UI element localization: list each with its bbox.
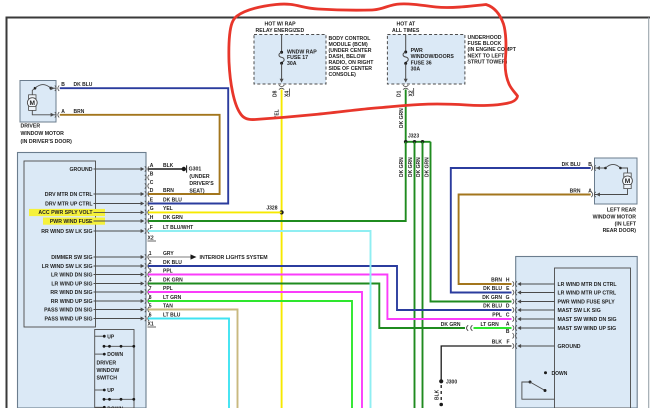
- svg-text:DK BLU: DK BLU: [562, 162, 581, 168]
- pin 4 of driver window switch: [51, 277, 183, 287]
- pin B label + wire DK BLU: LR motor B to LR module pin E: [451, 162, 593, 293]
- svg-text:BLK: BLK: [492, 339, 503, 345]
- svg-text:DK GRN: DK GRN: [424, 157, 430, 177]
- svg-text:UP: UP: [107, 388, 115, 394]
- svg-text:J300: J300: [446, 379, 457, 385]
- pin 2 of driver window switch: [42, 260, 182, 270]
- svg-text:DRIVER'S: DRIVER'S: [189, 181, 214, 187]
- svg-text:H: H: [150, 215, 154, 221]
- svg-text:J328: J328: [266, 206, 277, 212]
- label: HOT W/ RAP RELAY ENERGIZED: [256, 22, 305, 34]
- svg-text:G: G: [506, 295, 510, 301]
- pin H of left rear door module: [491, 277, 617, 287]
- pin F of left rear door module: [492, 339, 581, 349]
- svg-text:MAST SW WIND UP SIG: MAST SW WIND UP SIG: [558, 326, 617, 332]
- svg-text:NEXT TO LEFT: NEXT TO LEFT: [468, 53, 506, 59]
- fuse box: underhood fuse block (dashed): [387, 35, 465, 85]
- svg-text:LR WIND SW LK SIG: LR WIND SW LK SIG: [42, 264, 93, 270]
- svg-text:F: F: [150, 225, 153, 231]
- module: left rear door module (outer box): [516, 257, 638, 409]
- svg-text:2: 2: [149, 260, 152, 266]
- svg-text:DIMMER SW SIG: DIMMER SW SIG: [51, 255, 92, 261]
- svg-text:FUSE BLOCK: FUSE BLOCK: [468, 41, 502, 47]
- svg-text:PPL: PPL: [163, 286, 173, 292]
- svg-text:B: B: [588, 162, 592, 168]
- svg-text:PPL: PPL: [163, 268, 173, 274]
- svg-text:X2: X2: [148, 236, 154, 242]
- svg-text:D: D: [150, 188, 154, 194]
- svg-text:X1: X1: [148, 322, 154, 328]
- pin 5 of driver window switch: [44, 303, 173, 313]
- svg-text:DK BLU: DK BLU: [163, 197, 182, 203]
- svg-text:DRIVER: DRIVER: [97, 360, 117, 366]
- svg-text:SWITCH: SWITCH: [97, 375, 118, 381]
- pin 6 of driver window switch: [45, 312, 181, 322]
- pin G of driver window switch: [38, 206, 172, 216]
- svg-text:D1: D1: [396, 90, 402, 97]
- svg-text:MAST SW WIND DN SIG: MAST SW WIND DN SIG: [558, 317, 617, 323]
- pin C of left rear door module: [492, 312, 616, 322]
- wire BLK dashed below J300: [435, 385, 444, 406]
- svg-text:PWR WIND FUSE: PWR WIND FUSE: [50, 219, 93, 225]
- highlight: PWR WIND FUSE: [43, 218, 105, 225]
- svg-text:B: B: [150, 171, 154, 177]
- svg-text:B: B: [506, 329, 510, 335]
- svg-text:(IN ENGINE COMPT: (IN ENGINE COMPT: [468, 47, 517, 53]
- svg-text:RR WIND SW LK SIG: RR WIND SW LK SIG: [41, 229, 92, 235]
- svg-text:DK GRN: DK GRN: [408, 157, 414, 177]
- svg-text:STRUT TOWER): STRUT TOWER): [468, 60, 508, 66]
- label: DRIVER WINDOW MOTOR (IN DRIVER'S DOOR): [21, 123, 73, 145]
- svg-text:DK GRN: DK GRN: [163, 215, 183, 221]
- pin H of driver window switch: [50, 215, 183, 225]
- svg-text:PASS WIND DN SIG: PASS WIND DN SIG: [44, 307, 92, 313]
- wire DK GRN branch 2: J323 down off page: [408, 142, 415, 408]
- fuse F17 WNDW RAP 30A: [279, 35, 317, 80]
- pin 1 of driver window switch: [51, 251, 174, 261]
- svg-text:UNDERHOOD: UNDERHOOD: [468, 35, 502, 41]
- svg-text:J323: J323: [408, 134, 419, 140]
- wire DK GRN: fuse 36 down to J323: [399, 90, 406, 142]
- svg-text:C: C: [150, 180, 154, 186]
- pin D8 / X4 of BCM connector: [272, 79, 290, 97]
- pin E of left rear door module: [483, 286, 617, 296]
- svg-text:D8: D8: [272, 90, 278, 97]
- svg-text:3: 3: [149, 268, 152, 274]
- svg-text:WINDOW MOTOR: WINDOW MOTOR: [593, 214, 637, 220]
- svg-text:1: 1: [149, 251, 152, 257]
- wire DK GRN branch 1: J323 to driver switch pin H: [148, 142, 406, 221]
- ground G301 (under driver's seat): [182, 165, 215, 194]
- svg-text:CONSOLE): CONSOLE): [329, 72, 357, 78]
- svg-text:HOT AT: HOT AT: [397, 22, 417, 28]
- svg-text:ALL TIMES: ALL TIMES: [392, 28, 420, 34]
- svg-text:FUSE 36: FUSE 36: [411, 60, 432, 66]
- highlight: ACC PWR SPLY VOLT: [29, 209, 105, 216]
- label: HOT AT ALL TIMES: [392, 22, 420, 34]
- wire LT GRN: inline connector to LR module pin A: [474, 322, 512, 328]
- svg-text:DK GRN: DK GRN: [399, 108, 405, 128]
- wire LT BLU/WHT: pin F down off page: [148, 231, 371, 408]
- svg-text:GROUND: GROUND: [558, 344, 581, 350]
- pin C of driver window switch: [145, 180, 154, 189]
- svg-text:8: 8: [149, 295, 152, 301]
- wire YEL row G: pin G to J328: [148, 211, 282, 213]
- svg-text:BLK: BLK: [163, 163, 174, 169]
- pin B label + wire DK BLU: driver motor B to switch pin E: [60, 82, 228, 203]
- svg-text:BLK: BLK: [435, 389, 441, 400]
- svg-text:DK GRN: DK GRN: [163, 277, 183, 283]
- svg-text:INTERIOR LIGHTS SYSTEM: INTERIOR LIGHTS SYSTEM: [200, 255, 268, 261]
- svg-text:A: A: [588, 188, 592, 194]
- pin E of driver window switch: [45, 197, 182, 207]
- wire GRY: pin 1 to interior lights system arrow: [148, 254, 268, 261]
- pin 3 of driver window switch: [51, 268, 173, 278]
- pin F of driver window switch: [41, 225, 193, 235]
- wire BLK: LR module pin F to J300: [441, 346, 511, 381]
- junction J328: [266, 206, 283, 215]
- svg-text:WINDOW MOTOR: WINDOW MOTOR: [21, 131, 65, 137]
- svg-text:C: C: [506, 312, 510, 318]
- wire PPL: pin 7 down off page: [148, 292, 362, 408]
- svg-text:DK BLU: DK BLU: [163, 260, 182, 266]
- svg-text:DOWN: DOWN: [107, 352, 123, 358]
- svg-text:BRN: BRN: [163, 188, 174, 194]
- switch: LR window DOWN switch: [522, 371, 568, 399]
- pin A of left rear door module: [506, 321, 616, 331]
- pin B of left rear door module: [506, 329, 517, 338]
- wire LT BLU: pin 6 down off page: [148, 319, 229, 409]
- junction J323: [404, 134, 431, 144]
- svg-text:LT GRN: LT GRN: [163, 295, 182, 301]
- svg-text:5: 5: [149, 303, 152, 309]
- label: LEFT REAR WINDOW MOTOR (IN LEFT REAR DOOR): [593, 208, 637, 235]
- connector X2 label: [148, 236, 157, 242]
- svg-text:H: H: [506, 277, 510, 283]
- svg-text:BRN: BRN: [491, 277, 502, 283]
- wire TAN: pin 5 down off page: [148, 310, 238, 409]
- pin D of driver window switch: [45, 188, 174, 198]
- note: BCM location: [329, 36, 375, 78]
- svg-text:BRN: BRN: [570, 188, 581, 194]
- svg-text:LT BLU: LT BLU: [163, 312, 181, 318]
- motor: driver window motor: [20, 81, 59, 123]
- switch: driver window switch (UP/DOWN contacts): [95, 330, 136, 413]
- svg-text:TAN: TAN: [163, 303, 173, 309]
- svg-text:30A: 30A: [411, 67, 421, 73]
- svg-text:DK GRN: DK GRN: [482, 295, 502, 301]
- svg-text:RR WIND UP SIG: RR WIND UP SIG: [51, 299, 93, 305]
- wire DK GRN branch 3: J323 down off page: [416, 142, 423, 408]
- junction J300: [439, 379, 457, 385]
- motor: left rear window motor: [591, 158, 637, 204]
- note: underhood fuse block location: [468, 35, 517, 66]
- svg-text:PWR WIND FUSE SPLY: PWR WIND FUSE SPLY: [558, 299, 616, 305]
- svg-text:(IN LEFT: (IN LEFT: [615, 221, 637, 227]
- wire LT GRN: pin 8 down off page: [148, 301, 352, 408]
- svg-text:PPL: PPL: [492, 312, 502, 318]
- svg-text:A: A: [506, 321, 510, 327]
- svg-text:DRV MTR UP CTRL: DRV MTR UP CTRL: [45, 201, 93, 207]
- svg-text:DK BLU: DK BLU: [483, 303, 502, 309]
- svg-text:WINDOW: WINDOW: [97, 368, 120, 374]
- svg-text:YEL: YEL: [163, 206, 173, 212]
- pin A of driver window switch: [69, 163, 173, 173]
- svg-text:DK GRN: DK GRN: [441, 322, 461, 328]
- svg-text:DK BLU: DK BLU: [483, 286, 502, 292]
- wire YEL: fuse 17 down through J328 to bottom: [274, 90, 281, 409]
- svg-text:6: 6: [149, 312, 152, 318]
- pin 7 of driver window switch: [50, 286, 172, 296]
- svg-text:LT GRN: LT GRN: [481, 322, 500, 328]
- svg-text:(IN DRIVER'S DOOR): (IN DRIVER'S DOOR): [21, 139, 73, 145]
- wire DK GRN: pin 4 toward LR module pin A: [148, 284, 465, 329]
- pin B of driver window switch: [145, 171, 154, 180]
- svg-text:DOWN: DOWN: [552, 371, 568, 377]
- svg-text:GROUND: GROUND: [69, 167, 92, 173]
- svg-text:LR WIND UP SIG: LR WIND UP SIG: [51, 281, 92, 287]
- pin A label + wire BRN: driver motor A to switch pin D: [60, 109, 220, 194]
- wire BLK: pin A to ground G301: [148, 168, 184, 170]
- svg-text:D: D: [506, 303, 510, 309]
- pin D of left rear door module: [483, 303, 601, 313]
- svg-text:30A: 30A: [287, 61, 297, 67]
- fuse box: BCM (dashed): [254, 35, 326, 85]
- svg-text:G: G: [150, 206, 154, 212]
- svg-text:M: M: [30, 100, 36, 107]
- svg-text:PWR: PWR: [411, 48, 423, 54]
- wire DK GRN branch 4: J323 to LR door module pin G: [424, 142, 511, 302]
- pin 8 of driver window switch: [51, 295, 182, 305]
- svg-text:ACC PWR SPLY VOLT: ACC PWR SPLY VOLT: [38, 210, 93, 216]
- svg-text:F: F: [506, 339, 509, 345]
- svg-text:A: A: [150, 163, 154, 169]
- svg-text:WINDOW/DOORS: WINDOW/DOORS: [411, 54, 455, 60]
- svg-text:LR WIND DN SIG: LR WIND DN SIG: [51, 272, 93, 278]
- fuse F36 PWR WINDOW/DOORS 30A: [403, 35, 454, 80]
- svg-text:RELAY ENERGIZED: RELAY ENERGIZED: [256, 28, 305, 34]
- wire PPL: pin 3 to LR module pin C (MAST SW WIND DN SIG): [148, 275, 512, 320]
- svg-text:DRV MTR DN CTRL: DRV MTR DN CTRL: [45, 192, 94, 198]
- svg-text:DK GRN: DK GRN: [399, 157, 405, 177]
- wire DK BLU: pin 2 to LR module pin D (MAST SW LK SIG): [148, 266, 512, 310]
- connector X1 label: [148, 322, 157, 328]
- svg-text:LEFT REAR: LEFT REAR: [607, 208, 636, 214]
- svg-text:RR WIND DN SIG: RR WIND DN SIG: [50, 290, 92, 296]
- inline connector on DK GRN / LT GRN wire: [441, 322, 473, 331]
- svg-text:4: 4: [149, 277, 152, 283]
- svg-text:LR WIND MTR UP CTRL: LR WIND MTR UP CTRL: [558, 290, 618, 296]
- svg-text:MAST SW LK SIG: MAST SW LK SIG: [558, 308, 601, 314]
- pin G of left rear door module: [482, 295, 615, 305]
- svg-text:LT BLU/WHT: LT BLU/WHT: [163, 225, 193, 231]
- svg-text:REAR DOOR): REAR DOOR): [603, 228, 637, 234]
- svg-text:DK GRN: DK GRN: [416, 157, 422, 177]
- svg-text:7: 7: [149, 286, 152, 292]
- svg-text:DRIVER: DRIVER: [21, 123, 41, 129]
- svg-text:LR WIND MTR DN CTRL: LR WIND MTR DN CTRL: [558, 282, 618, 288]
- svg-text:G301: G301: [189, 167, 202, 173]
- svg-text:SEAT): SEAT): [189, 188, 204, 194]
- pin A label + wire BRN: LR motor A to LR module pin H: [459, 188, 593, 284]
- module: driver window switch (outer box): [18, 153, 147, 409]
- svg-text:PASS WIND UP SIG: PASS WIND UP SIG: [45, 316, 93, 322]
- annotation: hand-drawn red circle around fuses: [229, 4, 518, 120]
- svg-text:M: M: [625, 178, 631, 185]
- svg-text:HOT W/ RAP: HOT W/ RAP: [265, 22, 297, 28]
- svg-text:UP: UP: [107, 334, 115, 340]
- svg-text:GRY: GRY: [163, 251, 174, 257]
- svg-text:(UNDER: (UNDER: [189, 174, 209, 180]
- pin D1 / X2 of underhood fuse block: [396, 79, 414, 97]
